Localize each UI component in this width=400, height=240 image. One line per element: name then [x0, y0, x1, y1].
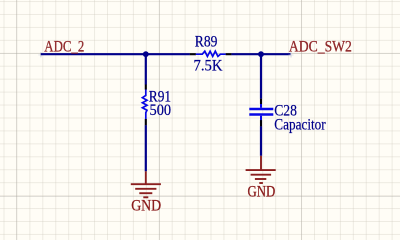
- pin 2 of R91: [145, 119, 147, 125]
- wire W2 junction A to R89 pin 1: [146, 53, 190, 55]
- wire W4 junction B to ADC_SW2: [261, 53, 291, 55]
- wire W6 R91 to GND stub: [145, 125, 147, 171]
- wire W8 C28 to GND stub: [260, 126, 262, 156]
- svg-text:7.5K: 7.5K: [194, 58, 224, 75]
- ground bar 2: [135, 188, 156, 190]
- resistor R89: [190, 51, 232, 56]
- svg-text:GND: GND: [131, 197, 161, 214]
- junction A: [143, 51, 149, 57]
- pin 2 of C28: [260, 120, 262, 126]
- pin 1 of C28: [260, 99, 262, 104]
- ground bar 1: [131, 183, 161, 185]
- zigzag body of R89: [196, 51, 226, 56]
- ground bar 4: [143, 196, 148, 198]
- ground symbol GND1: [131, 171, 161, 197]
- ground bar 3: [139, 192, 152, 194]
- wire end marker right: [289, 52, 294, 57]
- ground bar 4: [259, 182, 263, 184]
- wire W5 junction A down to R91: [145, 54, 147, 84]
- ground bar 3: [255, 178, 266, 180]
- wire W3 R89 pin 2 to junction B: [231, 53, 261, 55]
- pin 1 of R89: [190, 53, 196, 55]
- capacitor C28: [249, 99, 273, 127]
- wire W1 ADC_2 to junction A: [41, 53, 146, 55]
- ground stub wire: [260, 156, 262, 170]
- svg-text:500: 500: [150, 102, 172, 119]
- svg-text:ADC_SW2: ADC_SW2: [289, 38, 352, 55]
- zigzag body of R91: [142, 90, 147, 120]
- svg-text:Capacitor: Capacitor: [274, 116, 326, 133]
- svg-text:GND: GND: [248, 183, 276, 200]
- pin 2 of R89: [226, 53, 232, 55]
- svg-text:R89: R89: [195, 34, 218, 51]
- junction B: [258, 51, 264, 57]
- wire W7 junction B down to C28: [260, 54, 262, 99]
- lead 2 of C28: [260, 116, 262, 120]
- plate 2 of C28: [249, 113, 273, 116]
- pin 1 of R91: [145, 85, 147, 90]
- lead 1 of C28: [260, 104, 262, 108]
- ground symbol GND2: [246, 156, 276, 183]
- svg-text:ADC_2: ADC_2: [44, 39, 84, 56]
- ground bar 1: [246, 169, 276, 171]
- ground stub wire: [145, 171, 147, 184]
- ground bar 2: [251, 174, 272, 176]
- resistor R91: [142, 85, 147, 126]
- wire end marker left: [38, 52, 43, 57]
- plate 1 of C28: [249, 108, 273, 111]
